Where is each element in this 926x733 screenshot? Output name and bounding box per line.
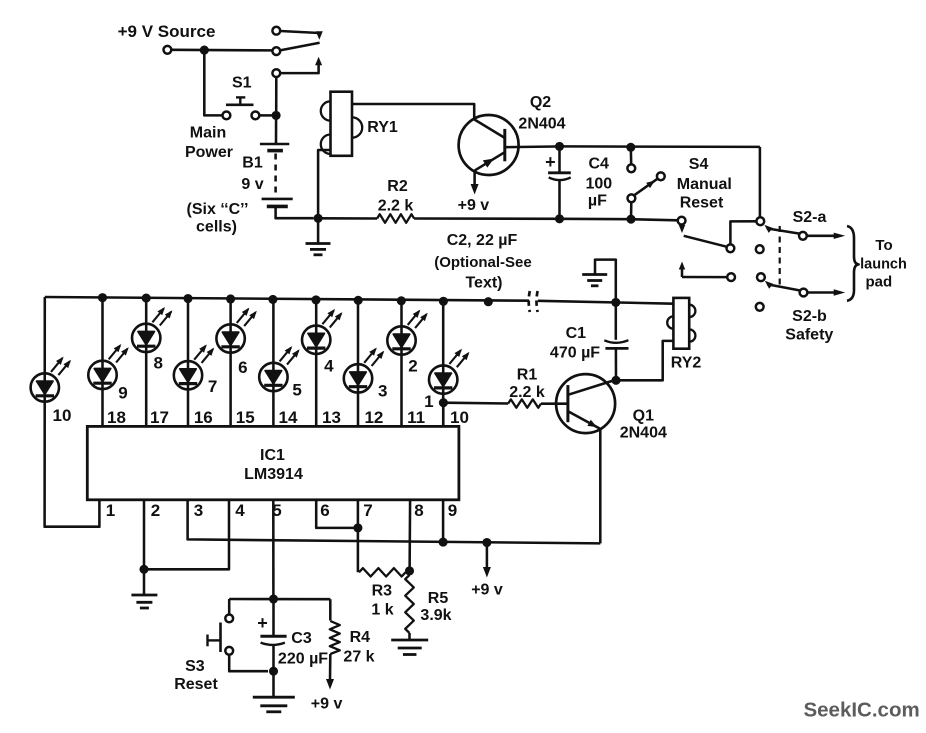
terminal S4 output xyxy=(678,217,686,225)
wire LED 8 branch xyxy=(145,298,148,426)
svg-text:Power: Power xyxy=(185,144,233,161)
node LED bus +9v junction xyxy=(484,297,493,306)
node A (+9V source junction) xyxy=(200,46,209,55)
wire LED bus corner to pin1 loop xyxy=(45,297,100,527)
svg-text:7: 7 xyxy=(363,501,372,520)
node LED 9 bus junction xyxy=(98,293,107,302)
svg-text:9: 9 xyxy=(448,501,457,520)
wire node F to S4 contact xyxy=(630,152,633,165)
svg-text:Q1: Q1 xyxy=(633,407,654,424)
svg-text:C2, 22 µF: C2, 22 µF xyxy=(447,232,518,249)
node pin5/C3 junction xyxy=(269,594,278,603)
svg-text:SeekIC.com: SeekIC.com xyxy=(803,698,919,721)
svg-text:6: 6 xyxy=(320,501,329,520)
svg-text:16: 16 xyxy=(194,408,213,427)
led1 LED 1 xyxy=(429,365,457,393)
svg-text:100: 100 xyxy=(585,175,612,192)
node R3/R5/pin8 junction xyxy=(405,566,414,575)
led9 LED 9 xyxy=(88,361,116,389)
wire ground bus to S4 xyxy=(560,218,632,221)
resistor R5 xyxy=(405,575,414,633)
led5 LED 5 xyxy=(259,363,287,391)
node E (C4 bottom) xyxy=(555,214,564,223)
svg-text:IC1: IC1 xyxy=(260,447,285,464)
wire C3 bottom xyxy=(272,645,275,671)
svg-text:3: 3 xyxy=(194,501,203,520)
wire right down to S2-a xyxy=(759,147,762,217)
svg-text:cells): cells) xyxy=(196,219,237,236)
svg-text:2.2 k: 2.2 k xyxy=(509,384,545,401)
switch S4 blade xyxy=(634,179,657,196)
relay contact lower lead with arrow xyxy=(281,57,323,73)
resistor R3 xyxy=(359,568,406,576)
svg-text:4: 4 xyxy=(324,357,334,376)
svg-text:13: 13 xyxy=(322,408,341,427)
svg-text:14: 14 xyxy=(279,408,298,427)
wire +9V source to node xyxy=(172,49,273,52)
wire C4 bottom xyxy=(558,180,561,218)
wire ground bus left xyxy=(318,217,377,220)
terminal S2 lower left xyxy=(727,244,735,252)
svg-text:Reset: Reset xyxy=(174,676,218,693)
wire LED bus right of C2 xyxy=(538,301,674,304)
arrow R4 to +9v xyxy=(326,654,334,690)
battery B1 cell 1 xyxy=(260,144,289,151)
wire pin7 down xyxy=(357,500,360,573)
wire LED 9 branch xyxy=(101,298,104,427)
svg-text:S2-a: S2-a xyxy=(793,209,827,226)
terminal S2-a common xyxy=(756,217,764,225)
wire RY1 to Q2 xyxy=(352,104,474,120)
wire pin2 down xyxy=(143,500,146,570)
svg-text:Reset: Reset xyxy=(680,195,724,212)
terminal +9V source xyxy=(164,46,172,54)
transistor Q1 xyxy=(556,374,615,433)
ground C3 xyxy=(253,671,295,712)
svg-text:+9 v: +9 v xyxy=(458,197,490,214)
node LED 4 bus junction xyxy=(311,295,320,304)
wire C3 top lead xyxy=(272,599,275,636)
node +9v bus junction xyxy=(482,538,491,547)
resistor R1 xyxy=(508,399,541,407)
svg-text:launch: launch xyxy=(860,256,907,272)
svg-text:8: 8 xyxy=(414,501,423,520)
relay contact middle circle xyxy=(272,47,280,55)
blade S2-b xyxy=(765,281,800,291)
svg-text:+9 v: +9 v xyxy=(311,695,343,712)
svg-text:Safety: Safety xyxy=(785,326,833,343)
node LED 6 bus junction xyxy=(226,294,235,303)
wire S4 to ground bus xyxy=(630,203,633,220)
node F (S4 top) xyxy=(626,143,635,152)
wire LED bus xyxy=(45,297,529,301)
ground flag above C1 xyxy=(582,260,616,303)
wire C4 top xyxy=(558,146,561,172)
node pin2 ground junction xyxy=(139,565,148,574)
led6 LED 6 xyxy=(216,324,244,352)
wire B1 dashed middle xyxy=(274,154,277,196)
node LED 7 bus junction xyxy=(183,294,192,303)
wire to S3 top xyxy=(228,599,231,614)
node C (battery ground junction) xyxy=(314,214,323,223)
svg-text:2: 2 xyxy=(408,357,417,376)
wire bus S4 to S2 xyxy=(631,219,677,220)
arrow RY2 contact actuator xyxy=(679,262,685,278)
wire node C to RY1 xyxy=(318,150,330,218)
svg-text:R3: R3 xyxy=(372,583,393,600)
svg-text:Manual: Manual xyxy=(677,176,732,193)
svg-text:11: 11 xyxy=(407,408,425,427)
svg-text:8: 8 xyxy=(153,354,162,373)
relay coil RY2 xyxy=(673,298,689,349)
transistor Q2 xyxy=(459,115,519,175)
svg-text:5: 5 xyxy=(292,381,301,400)
led7 LED 7 xyxy=(174,361,202,389)
relay contact lower circle xyxy=(272,69,280,77)
wire LED 4 branch xyxy=(315,300,318,427)
resistor R2 xyxy=(377,214,414,223)
svg-text:Main: Main xyxy=(190,125,226,142)
wire LED 2 branch xyxy=(400,301,403,427)
svg-text:12: 12 xyxy=(364,408,383,427)
capacitor C4 xyxy=(548,173,571,180)
wire R1 to Q1 base xyxy=(541,402,568,405)
arrow S4 output xyxy=(679,225,685,233)
wire C1 top lead xyxy=(615,302,618,339)
svg-text:µF: µF xyxy=(588,192,607,209)
wire pin5 down xyxy=(272,500,275,595)
switch S4 upper contact xyxy=(627,164,635,172)
terminal S2 pole spare lower xyxy=(756,303,764,311)
wire to S2-a common xyxy=(730,221,756,244)
svg-text:18: 18 xyxy=(107,408,126,427)
svg-text:15: 15 xyxy=(236,408,255,427)
svg-text:10: 10 xyxy=(53,406,72,425)
svg-text:+: + xyxy=(545,152,556,172)
wire LED1 to pin10 xyxy=(442,403,445,427)
wire node B to B1 xyxy=(275,115,278,144)
svg-text:2.2 k: 2.2 k xyxy=(378,197,414,214)
svg-text:RY2: RY2 xyxy=(671,355,702,372)
svg-text:RY1: RY1 xyxy=(367,119,398,136)
svg-text:10: 10 xyxy=(450,408,469,427)
svg-text:220 µF: 220 µF xyxy=(278,651,328,668)
capacitor C1 xyxy=(604,340,628,348)
wire LED 6 branch xyxy=(229,299,232,426)
wire node A down to S1 xyxy=(204,50,222,115)
node H (C1 top junction) xyxy=(611,298,620,307)
node LED 2 bus junction xyxy=(397,296,406,305)
brace to launch pad xyxy=(847,226,859,301)
led2 LED 2 xyxy=(387,326,415,354)
node C3/S3 ground junction xyxy=(269,667,278,676)
svg-text:B1: B1 xyxy=(242,155,263,172)
svg-text:pad: pad xyxy=(865,274,892,291)
blade S2-a xyxy=(764,225,799,234)
svg-text:1: 1 xyxy=(424,392,433,411)
wire RY2 contact blade xyxy=(682,276,727,279)
svg-text:To: To xyxy=(875,237,892,254)
led10 LED 10 xyxy=(31,373,59,401)
wire Q2 emitter to +9v arrow xyxy=(471,171,479,195)
terminal S2-b common xyxy=(757,273,765,281)
resistor R4 xyxy=(330,621,340,654)
node B (S1/B1 junction) xyxy=(272,111,281,120)
wire R4 top xyxy=(329,599,332,620)
svg-text:R1: R1 xyxy=(517,366,538,383)
wire lower circle to node B xyxy=(275,77,278,111)
node LED 8 bus junction xyxy=(142,294,151,303)
node G (S4 bottom) xyxy=(626,215,635,224)
node D (C4 top) xyxy=(555,142,564,151)
svg-text:2: 2 xyxy=(151,501,160,520)
blade S4 output to S2 xyxy=(684,236,727,247)
node pin6/pin7 junction xyxy=(353,523,362,532)
terminal S2-a contact xyxy=(799,232,807,240)
ground pin2 xyxy=(131,569,157,608)
svg-text:C1: C1 xyxy=(566,325,587,342)
svg-text:4: 4 xyxy=(235,501,245,520)
svg-text:17: 17 xyxy=(150,408,169,427)
wire pin2 to pin4 xyxy=(144,500,229,570)
switch S4 throw contact xyxy=(657,172,665,180)
arrow +9v below bus xyxy=(483,543,491,578)
svg-text:S4: S4 xyxy=(689,156,709,173)
switch S1 pushbutton xyxy=(223,97,260,119)
svg-text:S3: S3 xyxy=(185,658,205,675)
svg-text:1 k: 1 k xyxy=(371,601,393,618)
svg-text:+9 v: +9 v xyxy=(471,581,503,598)
svg-text:470 µF: 470 µF xyxy=(550,345,600,362)
led3 LED 3 xyxy=(344,364,372,392)
wire S2-a to launch pad xyxy=(807,233,845,239)
wire LED 7 branch xyxy=(187,299,190,427)
wire pin8 down xyxy=(408,500,411,571)
switch S4 lower contact xyxy=(628,194,636,202)
label Six C cells xyxy=(187,201,249,236)
svg-text:3: 3 xyxy=(378,382,387,401)
svg-text:R4: R4 xyxy=(350,629,371,646)
svg-text:(Six ‘‘C’’: (Six ‘‘C’’ xyxy=(187,201,249,218)
switch S3 pushbutton xyxy=(208,615,234,655)
wire S2-b to launch pad xyxy=(808,289,846,295)
ground battery xyxy=(306,218,331,255)
battery B1 cell 2 xyxy=(262,199,293,207)
wire ground bus right xyxy=(414,217,559,220)
wire pin9 down xyxy=(442,500,445,542)
ground R5 xyxy=(391,633,428,655)
wire S3 bottom to C3 bottom xyxy=(229,655,268,671)
node LED 5 bus junction xyxy=(268,295,277,304)
svg-text:S2-b: S2-b xyxy=(792,308,827,325)
wire Q1 emitter down xyxy=(599,429,602,544)
svg-text:27 k: 27 k xyxy=(343,648,374,665)
svg-text:S1: S1 xyxy=(232,74,252,91)
wire pin3 to +9v bus xyxy=(188,500,601,544)
node LED 1 bus junction xyxy=(439,297,448,306)
svg-text:C4: C4 xyxy=(588,155,609,172)
svg-text:LM3914: LM3914 xyxy=(244,466,303,483)
wire pin6 to pin7 xyxy=(316,500,354,528)
svg-text:(Optional-See: (Optional-See xyxy=(434,254,532,271)
node LED 3 bus junction xyxy=(354,296,363,305)
relay coil RY1 xyxy=(331,92,353,156)
wire S1 to node B xyxy=(260,114,272,117)
relay contact upper throw circle xyxy=(272,27,280,35)
svg-text:9 v: 9 v xyxy=(241,176,263,193)
svg-text:6: 6 xyxy=(238,358,247,377)
svg-text:2N404: 2N404 xyxy=(518,115,565,132)
wire Q2 base bus to right xyxy=(560,145,760,148)
dashed gang link S2 xyxy=(779,226,781,285)
node I (Q1 collector junction) xyxy=(611,376,620,385)
led8 LED 8 xyxy=(132,324,160,352)
svg-text:C3: C3 xyxy=(291,630,312,647)
node J (LED1 / R1 junction) xyxy=(439,398,448,407)
svg-text:9: 9 xyxy=(118,383,127,402)
wire LED 1 branch xyxy=(442,301,445,426)
wire B1 to ground bus xyxy=(276,206,314,218)
svg-text:Text): Text) xyxy=(465,275,502,292)
wire LED 5 branch xyxy=(272,299,275,426)
led4 LED 4 xyxy=(302,326,330,354)
wire R1 left lead xyxy=(443,401,508,404)
label Main Power xyxy=(185,125,233,162)
relay contact blade upper xyxy=(280,31,323,50)
svg-text:R5: R5 xyxy=(428,590,449,607)
capacitor C2 (series, dashed optional) xyxy=(529,291,538,312)
wire Q2 base to C4 node xyxy=(505,145,556,148)
svg-text:2N404: 2N404 xyxy=(620,424,667,441)
wire C3 top rail xyxy=(229,598,330,601)
svg-text:+9 V Source: +9 V Source xyxy=(118,22,216,41)
IC U1 LM3914 box xyxy=(87,426,459,499)
svg-text:R2: R2 xyxy=(387,178,408,195)
node pin9 junction xyxy=(439,538,448,547)
svg-text:+: + xyxy=(257,613,268,633)
wire LED 3 branch xyxy=(357,300,360,426)
terminal RY2 contact xyxy=(727,273,735,281)
terminal S2-b contact xyxy=(800,289,808,297)
svg-text:3.9k: 3.9k xyxy=(420,607,451,624)
svg-text:Q2: Q2 xyxy=(530,94,551,111)
wire C1 bottom lead xyxy=(615,348,618,380)
capacitor C3 xyxy=(260,636,286,645)
wire node I to RY2 xyxy=(616,341,673,380)
terminal S2 pole spare upper xyxy=(756,245,764,253)
svg-text:1: 1 xyxy=(106,501,115,520)
svg-text:7: 7 xyxy=(208,377,217,396)
